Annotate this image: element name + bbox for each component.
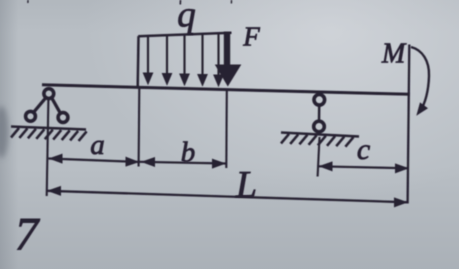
svg-text:7: 7 xyxy=(15,209,41,261)
svg-text:a: a xyxy=(90,129,105,161)
svg-text:L: L xyxy=(235,164,257,206)
svg-text:b: b xyxy=(181,137,196,169)
svg-text:q: q xyxy=(177,0,196,36)
svg-text:c: c xyxy=(357,133,370,166)
svg-text:M: M xyxy=(381,39,407,70)
svg-text:F: F xyxy=(242,22,260,52)
